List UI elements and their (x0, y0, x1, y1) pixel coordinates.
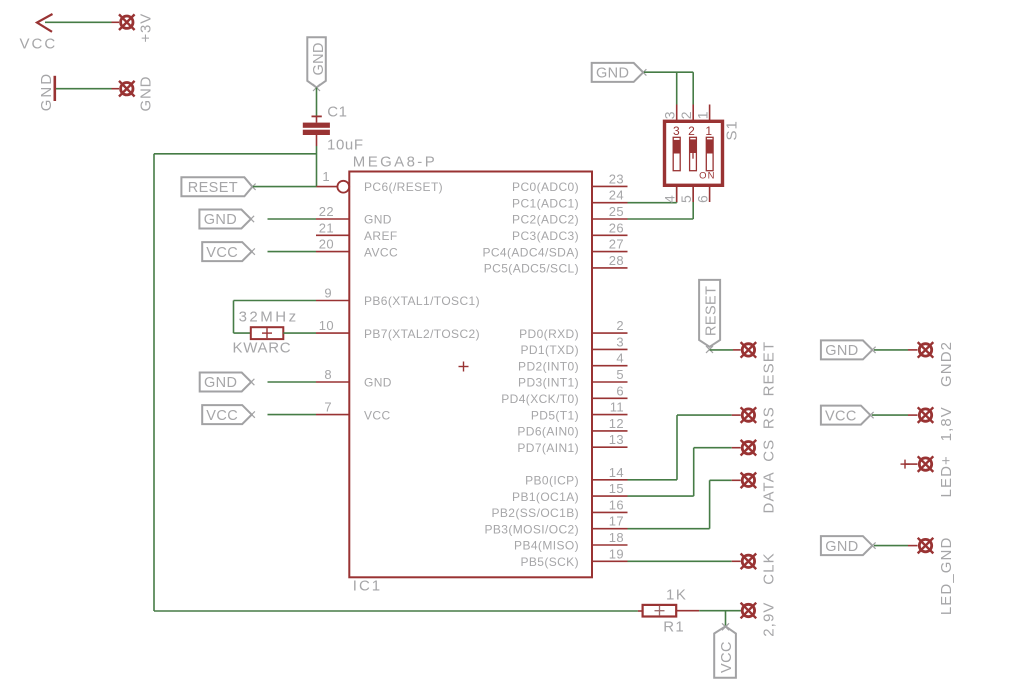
svg-text:5: 5 (678, 195, 694, 203)
svg-text:5: 5 (616, 367, 624, 382)
svg-text:13: 13 (609, 432, 624, 447)
svg-text:VCC: VCC (20, 36, 58, 53)
svg-text:C1: C1 (327, 104, 347, 121)
svg-text:GND: GND (825, 343, 858, 359)
svg-text:14: 14 (609, 465, 624, 480)
wire left vertical loop (153, 154, 155, 611)
svg-text:ON: ON (699, 170, 716, 181)
wire GND to pin 22 (268, 218, 317, 220)
svg-text:10uF: 10uF (327, 137, 364, 154)
wire to RS pad (677, 414, 732, 416)
svg-text:16: 16 (609, 497, 624, 512)
svg-text:GND: GND (204, 212, 237, 228)
svg-text:7: 7 (324, 400, 332, 415)
wire RESET flag to pad (710, 349, 733, 351)
S1 pin 3 stub (676, 105, 678, 121)
svg-text:R1: R1 (663, 619, 685, 636)
LED+ open end cross (901, 460, 910, 469)
svg-text:PC2(ADC2): PC2(ADC2) (512, 213, 579, 227)
svg-text:RESET: RESET (761, 341, 778, 397)
svg-text:3: 3 (673, 124, 680, 138)
svg-text:PC1(ADC1): PC1(ADC1) (512, 196, 579, 210)
flag RESET vertical (699, 280, 720, 347)
svg-text:LED+: LED+ (938, 455, 955, 497)
test point 2,9V (741, 603, 757, 619)
wire pin 24 to S1 pin4 (628, 202, 677, 204)
pin 13 line (592, 446, 628, 448)
VCC supply symbol (37, 14, 53, 32)
pin 28 line (592, 267, 628, 269)
S1 pin 6 stub (709, 186, 711, 202)
wire pin 14 horizontal (628, 479, 678, 481)
svg-text:PB4(MISO): PB4(MISO) (514, 539, 579, 553)
wire pin 19 to CLK pad (628, 560, 732, 562)
flag GND S1 (592, 63, 647, 82)
pin 19 line (592, 560, 628, 562)
flag VCC 1,8V (821, 406, 874, 425)
svg-text:PB7(XTAL2/TOSC2): PB7(XTAL2/TOSC2) (364, 327, 480, 341)
S1 pin 5 stub (692, 186, 694, 202)
test point CLK (741, 554, 757, 570)
svg-text:GND: GND (596, 66, 629, 82)
wire junction to left loop (154, 153, 317, 155)
svg-text:6: 6 (695, 195, 711, 203)
svg-text:4: 4 (616, 351, 624, 366)
wire to DATA pad (710, 479, 732, 481)
svg-text:GND: GND (364, 376, 392, 390)
svg-text:KWARC: KWARC (233, 340, 292, 357)
wire crystal right to pin 10 (283, 332, 316, 334)
pin 25 line (592, 218, 628, 220)
wire to CS pad (694, 447, 732, 449)
svg-text:8: 8 (324, 367, 332, 382)
flag GND pin8 (200, 373, 255, 392)
wire GND flag horizontal (644, 71, 693, 73)
pin 3 line (592, 348, 628, 350)
wire GND flag to C1 (316, 88, 318, 116)
wire GND to pin 8 (268, 381, 317, 383)
svg-text:RS: RS (761, 406, 778, 429)
GND2 pad stub (908, 349, 918, 351)
svg-text:3: 3 (616, 334, 624, 349)
svg-text:PD5(T1): PD5(T1) (531, 408, 579, 422)
svg-text:PC0(ADC0): PC0(ADC0) (512, 180, 579, 194)
svg-text:+3V: +3V (138, 13, 155, 43)
svg-text:PB2(SS/OC1B): PB2(SS/OC1B) (492, 506, 580, 520)
svg-text:PD0(RXD): PD0(RXD) (519, 327, 579, 341)
LED+ pad stub (905, 463, 918, 465)
wire VCC to pin 20 (268, 251, 317, 253)
svg-text:VCC: VCC (364, 408, 391, 422)
svg-text:GND: GND (311, 42, 327, 75)
pin 17 line (592, 528, 628, 530)
svg-text:PD3(INT1): PD3(INT1) (518, 376, 579, 390)
svg-text:3: 3 (662, 111, 678, 119)
svg-text:S1: S1 (724, 120, 741, 140)
pin 7 line (316, 414, 349, 416)
wire pin 15 horizontal (628, 495, 694, 497)
svg-text:1: 1 (695, 111, 711, 119)
wire DATA vertical (709, 480, 711, 528)
svg-text:PB6(XTAL1/TOSC1): PB6(XTAL1/TOSC1) (364, 294, 480, 308)
svg-text:15: 15 (609, 481, 624, 496)
test point LED+ (918, 456, 934, 472)
flag GND GND2 (821, 340, 876, 359)
pin stub +3V pad (112, 21, 120, 23)
test point GND (119, 81, 135, 97)
test point CS (741, 440, 757, 456)
RS pad stub (732, 414, 741, 416)
wire RESET to pin 1 (253, 186, 317, 188)
svg-text:19: 19 (609, 546, 624, 561)
wire to crystal left (234, 332, 251, 334)
wire R1 to 2,9V pad (699, 610, 741, 612)
svg-text:GND: GND (38, 72, 55, 111)
IC1 origin cross (459, 362, 469, 372)
wire CS vertical (693, 448, 695, 496)
svg-text:GND: GND (364, 213, 392, 227)
capacitor C1 plates (303, 123, 330, 128)
svg-text:1: 1 (322, 169, 330, 184)
svg-text:PC6(/RESET): PC6(/RESET) (364, 180, 443, 194)
svg-text:GND2: GND2 (938, 341, 955, 387)
wire GND flag to GND2 pad (874, 349, 908, 351)
svg-text:11: 11 (610, 400, 624, 415)
wire RS vertical (676, 415, 678, 480)
pin 1 line (317, 186, 338, 188)
svg-text:28: 28 (609, 253, 624, 268)
svg-text:PC4(ADC4/SDA): PC4(ADC4/SDA) (482, 245, 579, 259)
pin 11 line (592, 414, 628, 416)
flag GND LED_GND (821, 536, 876, 555)
pin 1 inversion circle (337, 181, 349, 193)
flag VCC pin7 (202, 405, 255, 424)
svg-text:CLK: CLK (761, 552, 778, 584)
C1 plus mark (312, 115, 322, 117)
wire bottom horizontal to R1 (154, 610, 638, 612)
svg-text:2: 2 (688, 124, 695, 138)
test point GND2 (918, 342, 934, 358)
svg-text:LED_GND: LED_GND (938, 537, 955, 616)
test point RESET (741, 342, 757, 358)
pin 24 line (592, 202, 628, 204)
svg-text:24: 24 (609, 188, 624, 203)
svg-text:26: 26 (609, 220, 624, 235)
svg-text:PB1(OC1A): PB1(OC1A) (512, 490, 579, 504)
pin 27 line (592, 251, 628, 253)
S1 pin 2 stub (692, 105, 694, 121)
pin 2 line (592, 332, 628, 334)
svg-text:27: 27 (609, 237, 624, 252)
wire VCC to pin 7 (268, 414, 317, 416)
svg-text:32MHz: 32MHz (239, 309, 299, 326)
svg-text:1: 1 (705, 124, 712, 138)
crystal Q1 KWARC (251, 327, 283, 339)
wire crystal vertical (233, 301, 235, 334)
svg-text:GND: GND (825, 539, 858, 555)
pin 4 line (592, 365, 628, 367)
S1 pin 1 stub (709, 105, 711, 121)
pin 20 line (316, 251, 349, 253)
DATA pad stub (732, 479, 741, 481)
svg-text:VCC: VCC (206, 245, 238, 261)
svg-text:23: 23 (609, 171, 624, 186)
svg-text:PD7(AIN1): PD7(AIN1) (517, 441, 579, 455)
wire pin 17 horizontal (628, 528, 710, 530)
R1 right stub (676, 610, 699, 612)
GND supply symbol (53, 76, 56, 101)
svg-text:17: 17 (609, 514, 624, 529)
wire pin9 horizontal (234, 300, 317, 302)
test point +3V (119, 14, 135, 30)
flag RESET (181, 177, 255, 196)
flag GND pin22 (199, 210, 254, 229)
pin 10 line (316, 332, 349, 334)
pin 12 line (592, 430, 628, 432)
svg-text:DATA: DATA (761, 471, 778, 513)
wire S1 pin5 vertical (692, 186, 694, 219)
2,9V pad stub (741, 610, 742, 612)
svg-text:PB3(MOSI/OC2): PB3(MOSI/OC2) (484, 522, 579, 536)
S1 pin 4 stub (676, 186, 678, 202)
svg-text:AREF: AREF (364, 229, 398, 243)
GND flag above C1 (307, 37, 326, 87)
C1 pin + stub (316, 116, 318, 123)
wire to S1 pin3 (676, 72, 678, 104)
svg-text:1,8V: 1,8V (938, 406, 955, 441)
svg-text:VCC: VCC (825, 408, 857, 424)
svg-text:PD6(AIN0): PD6(AIN0) (517, 425, 579, 439)
pin 9 line (316, 300, 349, 302)
pin 22 line (316, 218, 349, 220)
svg-text:GND: GND (138, 76, 155, 112)
svg-text:1K: 1K (666, 587, 687, 604)
pin 15 line (592, 495, 628, 497)
test point RS (741, 407, 757, 423)
svg-text:VCC: VCC (719, 641, 735, 673)
svg-text:4: 4 (662, 195, 678, 203)
pin 6 line (592, 397, 628, 399)
svg-text:PC3(ADC3): PC3(ADC3) (512, 229, 579, 243)
svg-text:9: 9 (324, 286, 332, 301)
svg-text:20: 20 (319, 237, 334, 252)
pin 14 line (592, 479, 628, 481)
pin 5 line (592, 381, 628, 383)
svg-text:6: 6 (616, 383, 624, 398)
wire to VCC flag (725, 611, 727, 627)
wire VCC to +3V pad (45, 21, 112, 23)
svg-text:21: 21 (319, 220, 334, 235)
svg-text:PD4(XCK/T0): PD4(XCK/T0) (501, 392, 579, 406)
svg-text:PC5(ADC5/SCL): PC5(ADC5/SCL) (484, 262, 579, 276)
svg-text:CS: CS (761, 439, 778, 462)
svg-text:25: 25 (609, 204, 624, 219)
pin 18 line (592, 544, 628, 546)
C1 lower pin stub (316, 135, 318, 146)
flag VCC pin20 (202, 242, 255, 261)
S1 sliders (673, 137, 713, 170)
pin 26 line (592, 234, 628, 236)
wire GND flag to LED_GND pad (874, 545, 908, 547)
CLK pad stub (732, 560, 741, 562)
pin stub GND pad (112, 88, 120, 90)
svg-text:10: 10 (319, 318, 334, 333)
svg-text:12: 12 (609, 416, 624, 431)
wire VCC flag to 1,8V pad (872, 414, 908, 416)
test point DATA (741, 473, 757, 489)
svg-text:PB0(ICP): PB0(ICP) (525, 474, 579, 488)
svg-text:GND: GND (204, 375, 237, 391)
wire S1 pin4 vertical (676, 186, 678, 203)
op IC1 MEGA8-P body (349, 172, 592, 578)
CS pad stub (732, 447, 741, 449)
test point LED_GND (918, 538, 934, 554)
svg-text:VCC: VCC (206, 408, 238, 424)
svg-text:PB5(SCK): PB5(SCK) (520, 555, 579, 569)
switch S1 body (665, 121, 723, 185)
wire GND to GND pad (56, 88, 112, 90)
svg-text:RESET: RESET (188, 180, 238, 196)
pin 21 line (316, 234, 349, 236)
pin 23 line (592, 185, 628, 187)
wire to S1 pin2 (692, 72, 694, 104)
svg-text:IC1: IC1 (353, 578, 382, 595)
pin 8 line (316, 381, 349, 383)
svg-text:PD1(TXD): PD1(TXD) (520, 343, 579, 357)
test point 1,8V (918, 407, 934, 423)
1,8V pad stub (908, 414, 918, 416)
svg-text:RESET: RESET (703, 286, 719, 336)
RESET pad stub (733, 349, 741, 351)
svg-text:2: 2 (678, 111, 694, 119)
svg-text:MEGA8-P: MEGA8-P (353, 153, 437, 170)
svg-text:AVCC: AVCC (364, 245, 398, 259)
svg-text:2,9V: 2,9V (761, 602, 778, 637)
LED_GND pad stub (908, 545, 918, 547)
svg-text:18: 18 (609, 530, 624, 545)
pin 16 line (592, 511, 628, 513)
wire pin 25 to S1 pin5 (628, 218, 694, 220)
svg-text:PD2(INT0): PD2(INT0) (518, 359, 579, 373)
svg-text:22: 22 (319, 204, 334, 219)
wire C1 to pin 1 (316, 146, 318, 187)
R1 left stub (638, 610, 643, 612)
svg-text:2: 2 (616, 318, 624, 333)
resistor R1 (643, 605, 677, 617)
